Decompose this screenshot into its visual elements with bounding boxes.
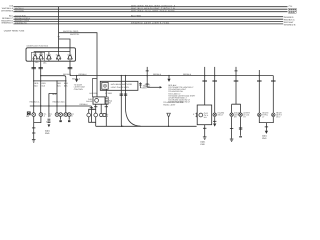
left arrow symbol [147,86,159,88]
bulb B2 [40,114,42,116]
col 259.3 up-stub [258,70,260,76]
svg-text:B7: B7 [92,108,94,111]
symbol right of long box [139,82,142,88]
wire drop fuse F1 [33,61,35,113]
bulbs right columns [213,113,217,117]
svg-text:WHT/GRN B: WHT/GRN B [1,10,14,13]
fuse F4 [57,52,60,62]
wire bulb pair feed [100,104,102,113]
wire bus L7 [14,23,284,25]
svg-text:FUSES: FUSES [140,87,147,90]
low ticks [203,127,268,129]
wire drop fuse F5 to bus [69,61,71,75]
svg-text:B10 RED: B10 RED [90,92,99,95]
wires below gauge box [89,104,197,126]
bulb B5 [65,114,67,116]
ticks under gauge box [90,106,108,109]
tick on B1 wire [32,127,35,129]
col 236 up-stub [235,67,237,76]
bulb sub-box [102,82,108,89]
fuse F1 [34,52,37,62]
col 214.7 below bulb [214,117,216,124]
connector tick F5 drop [68,68,73,69]
bulb B8 [95,114,97,116]
top right connector block [288,8,296,13]
up ticks [146,70,238,72]
indicator long box [100,81,138,90]
col 214.7 drop [214,76,216,113]
svg-text:GND: GND [200,143,205,146]
connector ticks F1 drop [32,68,36,69]
ground G-left [32,140,36,143]
svg-text:WHT/YEL FEED: WHT/YEL FEED [63,30,79,33]
svg-text:GND: GND [45,132,50,135]
svg-text:TO REAR DEFOG SW LT: TO REAR DEFOG SW LT [168,101,191,104]
wire left jog to B7 [89,104,96,113]
wire drop fuse F2 [40,61,42,113]
svg-text:GRN/RED DASH LIGHTS FEED: GRN/RED DASH LIGHTS FEED [131,22,170,25]
tick under 214 bulb [213,120,216,122]
wire branch A to right [59,33,97,97]
wire horizontal y80.9 [34,80,66,82]
node junction on feed [58,36,60,38]
wire drop from long line to lamp return [90,106,92,122]
col 236 grounds [232,117,241,139]
wire bus L6 [14,21,284,23]
svg-text:WHT/YEL: WHT/YEL [70,33,80,36]
ticks x121.3 x125.5 [120,94,128,95]
clock box texts [195,113,197,118]
verticals through long box from bus [106,76,140,127]
fuse F5 [68,52,71,62]
svg-text:No.5: No.5 [68,54,72,57]
down arrow col 214.7 [213,124,216,127]
col 259.3 drop [258,76,260,113]
bulb B6 [68,114,70,116]
svg-text:BLU: BLU [9,14,14,17]
gauge circle [95,99,99,103]
wire bridge [49,81,57,117]
wire internal riser 2 [69,48,71,52]
wire stubs below B4/B6 [61,116,70,120]
fuse F3 [47,52,50,62]
svg-text:RED: RED [52,93,57,96]
merged ground drop right pair [259,117,273,131]
svg-text:RED/BLK A: RED/BLK A [30,101,41,104]
svg-text:SW: SW [26,115,29,118]
wire branch B to fuse box [59,39,70,48]
svg-text:HIGH BEAM INDICATOR: HIGH BEAM INDICATOR [111,83,133,86]
svg-text:RED/BLK BLK: RED/BLK BLK [53,101,66,104]
svg-text:SW LT: SW LT [218,114,224,117]
bulb B1 [33,114,35,116]
svg-text:RED/BLK: RED/BLK [183,73,192,76]
lamp row left [32,113,71,117]
wire drop x125.5 [126,76,141,127]
svg-text:B7 RED: B7 RED [105,92,112,95]
svg-text:GAUGE: GAUGE [86,100,93,103]
fuse F2 [39,52,42,62]
arrow down from bus at x76.6 [75,76,78,83]
col 204.7 drop [204,76,206,105]
wire B7 to join [89,117,96,123]
wire drop sub-box bulb [105,89,107,126]
col 236 drop + T [232,76,241,113]
wire below B1 to ground [33,116,35,139]
wire bus L4 [14,16,284,18]
svg-text:RED/BLK: RED/BLK [153,73,162,76]
gauge box [93,97,105,104]
connector blob on F5 drop [32,68,73,69]
long bottom line [96,125,197,127]
svg-text:RED/BLK: RED/BLK [80,103,89,106]
svg-text:WHT/RED TAILLIGHT FEED WIRE: WHT/RED TAILLIGHT FEED WIRE [131,9,175,12]
svg-text:RED/BLK: RED/BLK [79,73,88,76]
svg-text:LIGHT GAUGE ASSY: LIGHT GAUGE ASSY [111,86,130,89]
svg-text:No.1: No.1 [33,53,37,56]
fuse box inner sub-box [32,52,45,61]
clock box col 204.7 [197,105,212,125]
svg-text:GND: GND [262,137,267,140]
col 273.3 end corner drop [272,76,274,113]
wire drop x121.3 [121,76,123,127]
fuse box outline [26,48,76,61]
wire below B2 jog to B1 line [34,116,41,122]
rheostat component on x106.3 wire [105,97,108,104]
right columns [147,67,273,139]
svg-text:No.2: No.2 [39,53,43,56]
tick low on B1 wire [32,132,35,134]
antenna off-page symbol [167,113,170,126]
blobs under B4 B6 [59,120,61,122]
wire internal bus [34,51,70,53]
wire bus L2 [14,8,288,10]
wire long horizontal y106 [30,105,92,107]
svg-text:No.3: No.3 [47,54,51,57]
through-wire x147.2 [146,67,148,87]
svg-text:GRN/RED B: GRN/RED B [284,23,296,26]
wire bus L5 [14,18,284,20]
bulb pair B9 B10 [100,113,103,116]
TEXT SMUDGES [1,4,296,146]
svg-text:G401: G401 [46,120,51,123]
svg-text:UNDER-HOOD FUSE: UNDER-HOOD FUSE [4,30,25,33]
wire gauge down [95,104,97,126]
svg-text:GRN/RED FD: GRN/RED FD [15,22,27,25]
bulb in sub-box [103,84,106,87]
coil down arrow [48,124,51,127]
hazard X-box symbol [27,112,30,115]
bulb B3 [56,114,58,116]
arrow down from bus at x169 [167,76,170,82]
wire internal riser 1 [58,48,60,52]
wire bus L1 [14,6,288,8]
svg-text:WHT/GRN: WHT/GRN [15,9,25,12]
svg-text:UNDER-DASH FUSE BOX: UNDER-DASH FUSE BOX [27,44,49,47]
col 204.7 below box [204,125,206,137]
svg-text:PANEL LIGHT: PANEL LIGHT [163,103,176,106]
down arrow merged right [265,131,268,134]
bulb B7 [88,114,90,116]
connector ticks F2 drop [39,68,43,69]
svg-text:No.4: No.4 [56,54,60,57]
wire feed drop from L1 [58,7,60,48]
svg-text:RED/BLK: RED/BLK [72,77,81,80]
wire bus L3 [14,11,288,13]
grounds right [203,137,234,142]
below-bus ticks [202,80,275,82]
svg-text:CONTROL: CONTROL [74,88,83,91]
col 204.7 up-stub [204,67,206,76]
svg-text:GRN/RED E: GRN/RED E [1,22,13,25]
col 214.7 up-stub [214,67,216,76]
wire horizontal y75.7 to lamp column [41,76,66,113]
svg-text:RED/BLK: RED/BLK [63,73,72,76]
svg-text:BLU FEED: BLU FEED [131,14,142,17]
distribution bus y75.6 [70,75,273,77]
junction dots [33,75,260,127]
bulb B4 [60,114,62,116]
cluster outline L wire [92,79,96,97]
coil component under bridge [48,119,51,122]
